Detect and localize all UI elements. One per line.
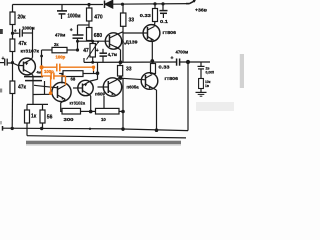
resistor R11 0.33 lower — [151, 61, 156, 75]
wire bottom return left — [2, 127, 123, 130]
capacitor C7 0.1 — [160, 4, 168, 18]
transistor Q3 гт806 upper — [143, 25, 160, 42]
diode VD1 — [105, 0, 113, 8]
svg-text:10: 10 — [101, 117, 106, 122]
node output on mid rail — [186, 60, 190, 64]
svg-text:п605а: п605а — [127, 84, 140, 89]
svg-text:47: 47 — [83, 48, 89, 54]
wire Q3 base — [123, 32, 148, 34]
capacitor C8 4700м — [177, 59, 180, 66]
svg-text:+36в: +36в — [195, 7, 207, 12]
svg-text:+: + — [96, 48, 99, 54]
wire rail x123 middle — [122, 26, 124, 62]
scan artifact right edge — [240, 54, 244, 88]
wire rail x123 top — [122, 4, 124, 13]
svg-text:гт806: гт806 — [163, 30, 177, 35]
node orange at QA base — [49, 91, 53, 95]
svg-text:33: 33 — [126, 67, 132, 73]
capacitor C11 100p lower — [51, 73, 54, 80]
svg-text:1000м: 1000м — [68, 13, 81, 19]
wire input to Q1 base — [7, 63, 23, 66]
wire rail x123 lower — [122, 79, 124, 132]
capacitor C1 1000м (bias decoupling) — [13, 29, 33, 38]
node dot R4/C5 junction — [40, 55, 43, 58]
wire top supply rail left segment — [13, 4, 104, 6]
svg-text:п609: п609 — [95, 92, 105, 97]
resistor R5 470 — [87, 5, 92, 22]
node B divider — [11, 32, 14, 35]
node small tick — [89, 128, 91, 130]
scan artifact left edge mark lower — [0, 89, 2, 93]
svg-text:+: + — [171, 56, 174, 62]
wire R12 right — [83, 73, 98, 75]
svg-text:4м: 4м — [37, 71, 42, 75]
terminal +36в arrow — [186, 0, 196, 4]
wire orange lower branch — [42, 67, 51, 76]
wire right rail x188 — [187, 62, 189, 131]
capacitor C9 0,005 zobel — [198, 62, 205, 69]
node R10 top on mid rail — [119, 60, 123, 64]
transistor Q4 гт806 lower — [141, 73, 158, 90]
svg-text:кт3102а: кт3102а — [70, 100, 86, 105]
capacitor C4 4м emitter bypass — [24, 77, 43, 81]
node C7 top on rail — [161, 2, 164, 5]
transistor QC п605а output — [98, 77, 122, 96]
node QC collector — [119, 76, 123, 80]
svg-text:1к: 1к — [31, 114, 37, 120]
resistor R4 2к — [42, 47, 78, 52]
resistor R6 680 — [87, 21, 92, 41]
wire Q1 emitter rail — [32, 76, 34, 105]
svg-text:0,005: 0,005 — [206, 70, 215, 74]
wire QA base feed — [34, 85, 58, 88]
svg-text:100p: 100p — [44, 69, 54, 74]
svg-text:0.33: 0.33 — [159, 65, 171, 70]
svg-text:68: 68 — [71, 77, 76, 82]
capacitor C6 4,7м — [100, 49, 108, 63]
scan artifact right lower smudge — [196, 102, 234, 111]
wire orange upper branch right — [60, 66, 94, 68]
svg-text:1в: 1в — [205, 84, 209, 88]
svg-text:47к: 47к — [19, 41, 28, 47]
orange feedback highlight network — [40, 64, 96, 95]
svg-text:1000м: 1000м — [22, 25, 35, 30]
node R7 top — [91, 40, 94, 43]
wire bottom return wire2 — [27, 136, 186, 138]
transistor Q2 driver — [105, 32, 123, 50]
svg-text:0.1: 0.1 — [160, 19, 169, 24]
transistor QB п609 — [73, 79, 98, 95]
svg-text:+: + — [14, 29, 17, 35]
svg-text:33: 33 — [129, 17, 135, 23]
resistor R17 10к zobel — [199, 69, 204, 92]
wire R12 left drop — [61, 74, 63, 84]
svg-text:680: 680 — [94, 33, 103, 39]
wire R4 to node A — [41, 50, 43, 67]
wire R4 right riser — [77, 41, 79, 50]
svg-text:20к: 20к — [18, 15, 27, 21]
svg-text:4,7м: 4,7м — [108, 52, 117, 57]
terminal input bottom tick — [2, 126, 4, 131]
node R3 bottom — [11, 127, 14, 130]
svg-text:кт3107к: кт3107к — [21, 49, 40, 54]
resistor R10 33 lower — [118, 62, 123, 77]
wire rail to R1 — [12, 5, 14, 13]
wire link under orange drop — [93, 71, 95, 74]
wire Q1 collector riser — [32, 28, 34, 58]
svg-text:100p: 100p — [56, 54, 66, 59]
node Q1 base input — [11, 61, 14, 64]
transistor Q1 кт3107к — [19, 58, 36, 76]
wire top supply rail right segment — [113, 3, 190, 6]
wire R1 to node B — [12, 25, 14, 34]
node diode cathode rail — [121, 3, 124, 6]
wire C5 top to R5/R6 node — [78, 24, 90, 26]
svg-text:470м: 470м — [55, 32, 65, 37]
wire orange lower drop — [50, 76, 52, 93]
wire orange drop to QA — [65, 76, 67, 85]
node A orange junction — [40, 65, 44, 69]
resistor R2 47к upper — [10, 34, 15, 63]
node Q4 emitter bottom — [155, 128, 159, 132]
wire stub x84 — [83, 58, 85, 62]
node R7 bottom on mid rail — [91, 61, 94, 64]
node R14 bottom — [40, 127, 43, 130]
svg-text:300: 300 — [64, 117, 75, 122]
capacitor C10 100p upper — [57, 64, 60, 72]
node R4 right — [76, 48, 79, 51]
wire link vertical — [44, 81, 46, 95]
resistor R9 0.33 upper — [153, 4, 158, 26]
wire QC emitter drop — [103, 96, 105, 108]
resistor R16 10 — [91, 108, 123, 114]
wire mid rail y62 left part — [84, 61, 177, 63]
svg-text:4700м: 4700м — [176, 50, 189, 55]
wire Q3 emitter drop — [151, 41, 153, 61]
wire Q4 base — [121, 78, 146, 80]
ground — [196, 92, 207, 96]
wire node to mid rail — [97, 62, 99, 79]
wire link horizontal — [33, 93, 52, 95]
resistor R3 47к lower — [10, 63, 15, 129]
wire QB collector drop — [83, 91, 91, 112]
resistor R8 33 upper — [121, 13, 126, 26]
wire Q2 base rail — [78, 40, 110, 42]
scan artifact bottom bar — [26, 141, 181, 144]
resistor R12 68 — [60, 71, 83, 77]
node Q3 emitter on mid rail — [150, 59, 154, 63]
svg-text:гт806: гт806 — [165, 76, 179, 81]
wire Q2 emitter drop — [120, 50, 122, 63]
svg-text:47к: 47к — [18, 85, 27, 91]
wire Q4 emitter drop — [156, 90, 158, 130]
resistor R13 1к — [25, 104, 30, 135]
svg-text:56: 56 — [47, 115, 53, 121]
node R16 right on rail x123 — [121, 110, 125, 114]
node bottom rail x123 — [121, 127, 125, 131]
scan artifact bottom bar light — [26, 144, 181, 145]
capacitor C2 1000м (top filter) — [57, 5, 67, 20]
wire mid rail y62 right part — [180, 61, 210, 63]
node R12 right junction — [96, 71, 100, 75]
wire QA emitter to R15 — [61, 99, 66, 111]
wire orange right drop — [93, 67, 95, 72]
node R9 top on rail — [153, 2, 156, 5]
svg-text:0,Д139: 0,Д139 — [121, 39, 138, 44]
node C5 bottom — [76, 40, 79, 43]
resistor R1 20к — [10, 12, 15, 25]
wire orange lower branch right — [54, 75, 66, 77]
wire bottom return right — [123, 129, 188, 131]
wire orange upper branch — [42, 66, 56, 68]
node R15/R16 junction — [89, 110, 93, 114]
resistor R14 56 — [40, 104, 45, 128]
resistor R15 300 — [62, 108, 91, 114]
scan artifact left notch — [0, 121, 2, 124]
svg-text:470: 470 — [94, 14, 103, 20]
svg-text:+: + — [2, 56, 5, 62]
scan artifact left edge mark upper — [0, 29, 3, 34]
node R5 top on rail — [87, 3, 90, 6]
node orange right junction — [92, 66, 95, 69]
svg-text:0.33: 0.33 — [140, 13, 152, 18]
svg-text:+: + — [70, 28, 73, 34]
capacitor C3 input — [0, 59, 7, 66]
wire bias y104 — [27, 103, 48, 105]
potentiometer R7 47 — [87, 41, 100, 63]
transistor QA кт3102а — [52, 82, 71, 101]
capacitor C5 470м — [73, 25, 84, 41]
